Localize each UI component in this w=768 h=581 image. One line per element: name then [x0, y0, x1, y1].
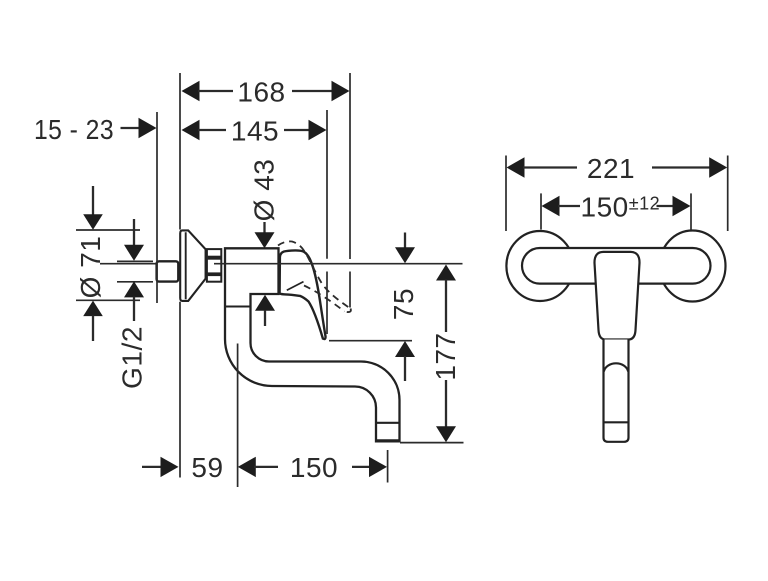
svg-text:177: 177 [430, 332, 461, 380]
handle tongue front [594, 252, 639, 340]
label diameter 43 [249, 159, 280, 326]
tick handle tip level y340 [329, 340, 412, 342]
centerline left segment [100, 263, 156, 265]
extension line wall surface x157 [156, 112, 158, 303]
escutcheon (side view cone) [180, 230, 205, 301]
handle grip front [604, 340, 629, 442]
aerator joint line [376, 422, 400, 424]
centerline through body [214, 263, 463, 265]
grip arch [604, 363, 628, 371]
right escutcheon circle [660, 231, 726, 302]
dimension 145 [182, 115, 327, 146]
dimension diameter 71 [75, 186, 140, 341]
svg-text:150: 150 [290, 452, 338, 483]
svg-text:59: 59 [191, 452, 223, 483]
extension spout axis [237, 344, 239, 488]
dimension G1/2 [117, 219, 154, 389]
extension line 145 end x327 [326, 110, 328, 259]
extension line wall x180 [179, 73, 181, 230]
dimension 75 [388, 233, 419, 382]
extension outlet axis [387, 450, 389, 483]
dimension 150 [290, 452, 387, 483]
dimension 15 - 23 [34, 114, 157, 145]
square wall nipple G1/2 [157, 261, 179, 281]
body-spout joint line [226, 306, 250, 308]
svg-text:Ø 43: Ø 43 [249, 159, 280, 222]
tick outlet bottom y442 [400, 442, 464, 444]
extension line 168 end x350 [349, 73, 351, 259]
handle crease line [287, 282, 304, 291]
faucet body and spout (side view) [225, 248, 400, 441]
hex collar with shading bands [207, 249, 221, 282]
aerator face thick bottom [377, 439, 399, 442]
dimension 59 [142, 452, 278, 483]
grip cap line [604, 421, 629, 423]
svg-text:G1/2: G1/2 [117, 326, 148, 389]
svg-text:Ø 71: Ø 71 [75, 236, 106, 299]
dimension 168 [182, 76, 350, 107]
dimension 221 [506, 153, 728, 231]
svg-text:168: 168 [237, 76, 285, 107]
escutcheon rim line [185, 232, 187, 299]
left escutcheon circle [506, 231, 573, 301]
dimension 150 plus/minus 12 [541, 191, 691, 229]
svg-text:15 - 23: 15 - 23 [34, 114, 114, 145]
handle (side view, solid) [280, 250, 326, 339]
dashed handle raised position [278, 241, 351, 312]
svg-text:75: 75 [388, 288, 419, 320]
dimension 177 [430, 265, 461, 443]
body capsule [522, 248, 711, 284]
svg-text:221: 221 [587, 153, 635, 184]
svg-text:145: 145 [231, 115, 279, 146]
